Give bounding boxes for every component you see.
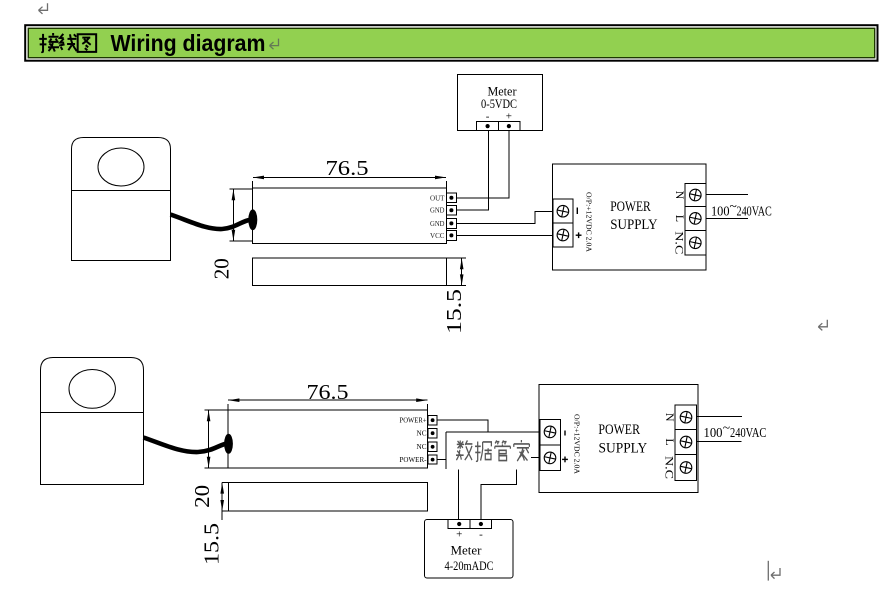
svg-text:+: + — [506, 111, 512, 123]
svg-text:N.C: N.C — [663, 456, 677, 479]
svg-text:VCC: VCC — [430, 232, 445, 240]
svg-text:100: 100 — [711, 203, 730, 218]
svg-text:20: 20 — [210, 258, 234, 279]
svg-text:POWER+: POWER+ — [400, 416, 427, 425]
svg-text:76.5: 76.5 — [326, 156, 369, 180]
svg-text:O/P:+12VDC 2.0A: O/P:+12VDC 2.0A — [573, 414, 582, 475]
svg-text:20: 20 — [190, 485, 214, 508]
svg-text:0-5VDC: 0-5VDC — [481, 97, 517, 111]
svg-text:Wiring diagram: Wiring diagram — [111, 30, 266, 56]
svg-text:240VAC: 240VAC — [737, 203, 772, 218]
svg-text:GND: GND — [430, 220, 445, 228]
svg-text:POWER: POWER — [598, 422, 640, 438]
svg-text:N: N — [673, 191, 687, 200]
svg-text:-: - — [479, 529, 483, 541]
svg-text:15.5: 15.5 — [199, 523, 223, 565]
svg-text:L: L — [673, 215, 687, 222]
svg-text:POWER: POWER — [610, 199, 651, 215]
svg-text:SUPPLY: SUPPLY — [599, 441, 648, 457]
svg-text:NC: NC — [417, 442, 427, 451]
svg-text:76.5: 76.5 — [307, 380, 349, 404]
svg-text:100: 100 — [704, 425, 723, 440]
svg-text:N.C: N.C — [673, 231, 687, 254]
svg-text:N: N — [663, 413, 677, 422]
svg-text:4-20mADC: 4-20mADC — [445, 559, 494, 573]
svg-text:240VAC: 240VAC — [730, 425, 766, 440]
svg-text:OUT: OUT — [430, 194, 445, 202]
svg-text:GND: GND — [430, 207, 445, 215]
svg-text:L: L — [663, 438, 677, 445]
svg-text:-: - — [486, 111, 490, 123]
svg-text:15.5: 15.5 — [442, 289, 466, 334]
svg-text:Meter: Meter — [451, 544, 483, 558]
svg-text:POWER-: POWER- — [400, 455, 427, 464]
svg-text:NC: NC — [417, 429, 427, 438]
svg-text:+: + — [456, 529, 462, 541]
svg-text:O/P:+12VDC 2.0A: O/P:+12VDC 2.0A — [585, 192, 594, 253]
svg-text:SUPPLY: SUPPLY — [610, 217, 658, 233]
